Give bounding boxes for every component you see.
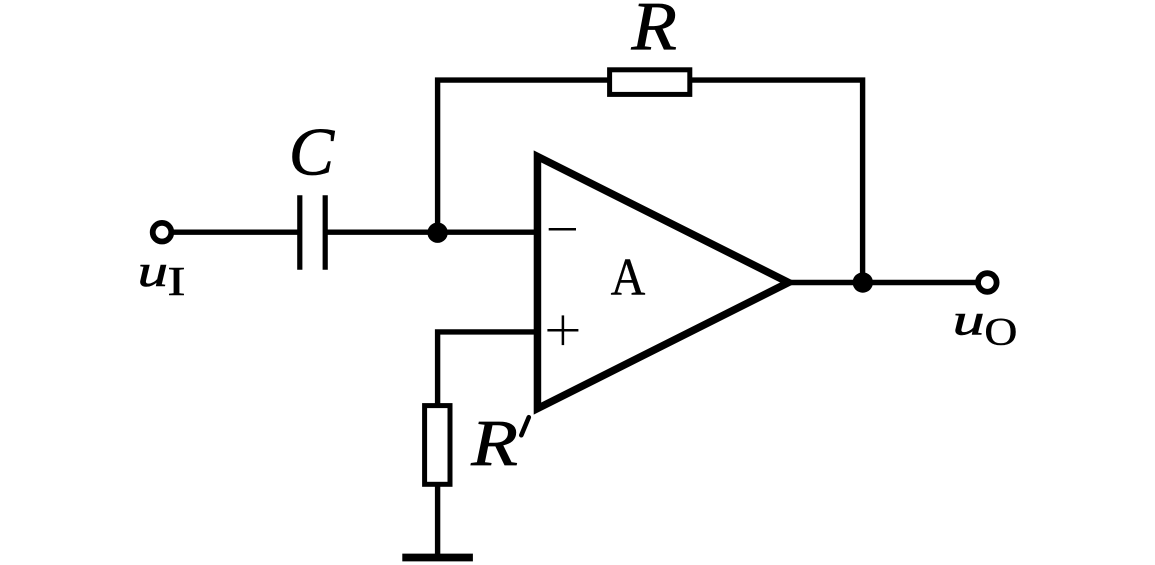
op-amp U1 (triangle) — [537, 156, 788, 408]
op-amp plus sign (non-inverting input) — [547, 315, 578, 345]
wire: non-inverting input elbow down to resistor R' — [438, 332, 538, 406]
input terminal (open circle) — [153, 223, 172, 242]
wire: op-amp output to output terminal — [782, 280, 987, 285]
svg-text:O: O — [984, 309, 1017, 353]
op-amp minus sign (inverting input) — [549, 228, 576, 231]
label u_I — [138, 246, 186, 304]
svg-text:R: R — [470, 408, 518, 480]
output terminal (open circle) — [978, 273, 997, 292]
label u_O — [953, 296, 1018, 354]
svg-text:u: u — [953, 296, 985, 345]
node: output junction dot — [853, 272, 873, 292]
svg-text:R: R — [630, 0, 676, 64]
resistor R (feedback) — [610, 70, 690, 95]
label R' — [470, 408, 529, 480]
svg-text:u: u — [138, 246, 169, 296]
ground — [402, 554, 473, 562]
wire: input terminal to capacitor left plate — [162, 229, 300, 234]
svg-text:C: C — [289, 113, 335, 189]
capacitor C (two plates) — [300, 195, 325, 270]
svg-text:A: A — [611, 246, 646, 306]
wire: feedback loop (node A up, across top through R, down to output node) — [438, 80, 863, 282]
wire: resistor R' to ground — [435, 484, 440, 557]
wire: capacitor right plate to inverting input of op-amp — [325, 229, 538, 234]
svg-text:I: I — [167, 259, 185, 304]
node: junction dot at inverting input — [427, 223, 447, 243]
resistor R' (non-inverting input to ground) — [425, 406, 450, 485]
